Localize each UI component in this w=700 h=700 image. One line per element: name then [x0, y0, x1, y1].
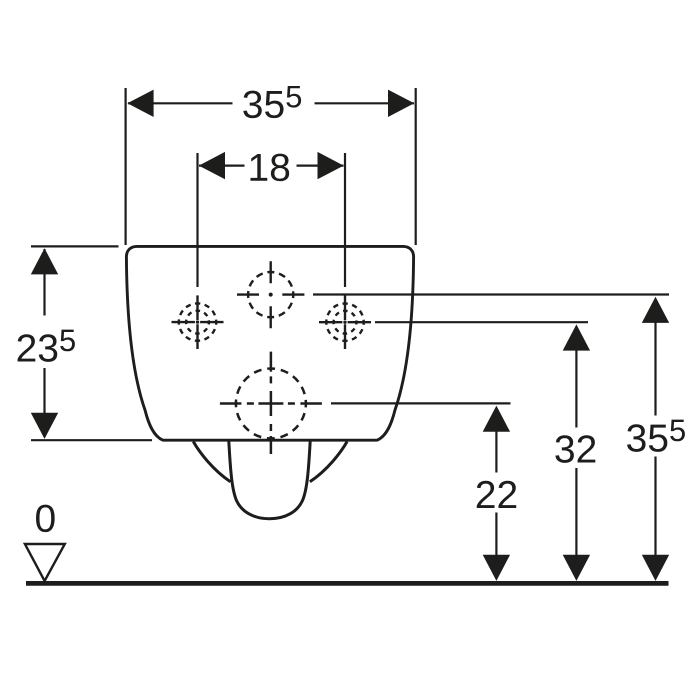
outlet outer left curve: [193, 442, 230, 482]
right hole center dot: [343, 321, 346, 324]
ref line 32 (side holes height): [375, 321, 588, 323]
ref line 355 (top hole height): [313, 293, 669, 295]
dim 18: extension right (down into right hole): [344, 153, 346, 287]
dim 355 right: up arrowhead: [642, 297, 669, 323]
dim 235 left: text: [18, 334, 36, 361]
dim 355 top: line right segment: [315, 102, 415, 104]
right hole crosshair horizontal: [319, 321, 371, 323]
toilet body outline: [126, 246, 413, 440]
dim 235 left: line lower segment: [43, 368, 45, 437]
right hole inner circle: [334, 311, 357, 334]
dim 22: down arrowhead: [483, 555, 510, 581]
dim 355 top: extension line left: [124, 88, 126, 245]
dim 22: text: [477, 481, 495, 508]
dim 32: down arrowhead: [563, 555, 590, 581]
dim 32: line lower segment: [575, 468, 577, 556]
top hole circle: [248, 272, 293, 317]
dim 22: line lower segment: [495, 513, 497, 557]
dim 355 top: extension line right: [415, 88, 417, 245]
dim 32: text: [555, 435, 573, 463]
dim 355 top: left arrowhead: [127, 90, 153, 117]
dim 355 right: down arrowhead: [642, 555, 669, 581]
dim 355 top: text: [243, 91, 261, 119]
right hole outer circle: [326, 304, 363, 341]
dim 18: text: [250, 154, 267, 181]
dim 355 right: text: [627, 424, 645, 452]
dim 235 left: line upper segment: [43, 249, 45, 316]
dim 355 top: right arrowhead: [388, 90, 414, 117]
dim 32: line upper segment: [575, 349, 577, 428]
dim 18: line left segment: [199, 165, 245, 167]
dim 355 right: line upper segment: [654, 322, 656, 416]
dim 355 top: line left segment: [128, 102, 233, 104]
dim 18: extension left (down into left hole): [196, 153, 198, 287]
dim 355 right: line lower segment: [654, 457, 656, 557]
dim 235 left: down arrowhead: [31, 413, 58, 439]
top hole crosshair horizontal: [237, 293, 304, 295]
outlet outer right curve: [310, 442, 347, 482]
dim 18: right arrowhead: [318, 152, 344, 179]
ref line 22 (big hole height): [331, 402, 511, 404]
top hole crosshair vertical: [270, 261, 272, 328]
big hole crosshair vertical: [270, 352, 273, 454]
label 0: [36, 505, 55, 533]
dim 22: line upper segment: [495, 430, 497, 473]
dim 22: up arrowhead: [483, 406, 510, 432]
left hole crosshair horizontal: [172, 321, 224, 323]
left hole inner circle: [186, 311, 209, 334]
right hole crosshair vertical: [344, 295, 346, 349]
left hole crosshair vertical: [196, 295, 198, 349]
left hole outer circle: [179, 303, 216, 340]
datum triangle: [25, 544, 65, 581]
dim 235 left: extension top: [31, 245, 119, 247]
baseline (floor): [26, 581, 669, 586]
top hole center dot: [269, 293, 273, 297]
outlet spigot: [229, 441, 310, 519]
dim 18: left arrowhead: [199, 152, 225, 179]
dim 18: line right segment: [297, 165, 344, 167]
dim 235 left: up arrowhead: [31, 248, 58, 274]
dim 235 left: extension bottom: [31, 439, 152, 441]
dim 32: up arrowhead: [563, 324, 590, 350]
big hole crosshair horizontal: [220, 402, 322, 405]
left hole center dot: [196, 320, 199, 323]
big hole circle: [236, 369, 306, 439]
